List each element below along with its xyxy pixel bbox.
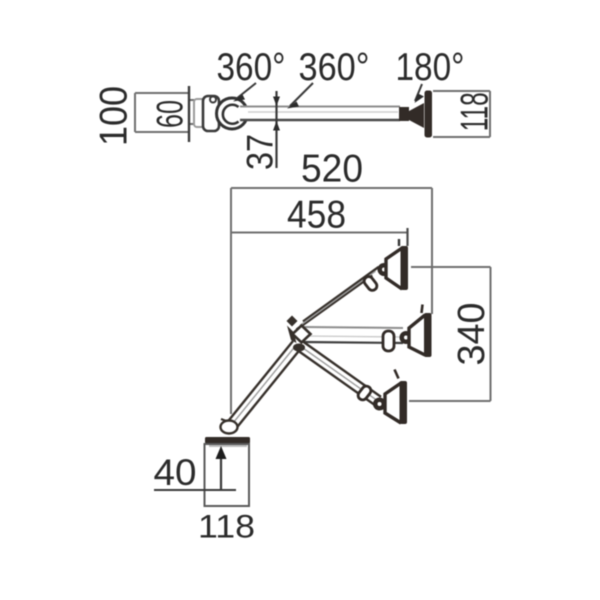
svg-text:40: 40 bbox=[154, 452, 197, 493]
svg-text:360°: 360° bbox=[299, 46, 370, 89]
svg-text:118: 118 bbox=[198, 509, 255, 545]
svg-text:520: 520 bbox=[301, 148, 363, 191]
svg-text:340: 340 bbox=[451, 303, 493, 366]
svg-text:118: 118 bbox=[453, 92, 496, 131]
svg-text:458: 458 bbox=[287, 194, 346, 237]
svg-text:60: 60 bbox=[150, 100, 191, 128]
svg-text:360°: 360° bbox=[217, 46, 286, 89]
svg-text:100: 100 bbox=[93, 86, 136, 146]
svg-text:37: 37 bbox=[240, 134, 281, 170]
svg-text:180°: 180° bbox=[396, 46, 465, 89]
